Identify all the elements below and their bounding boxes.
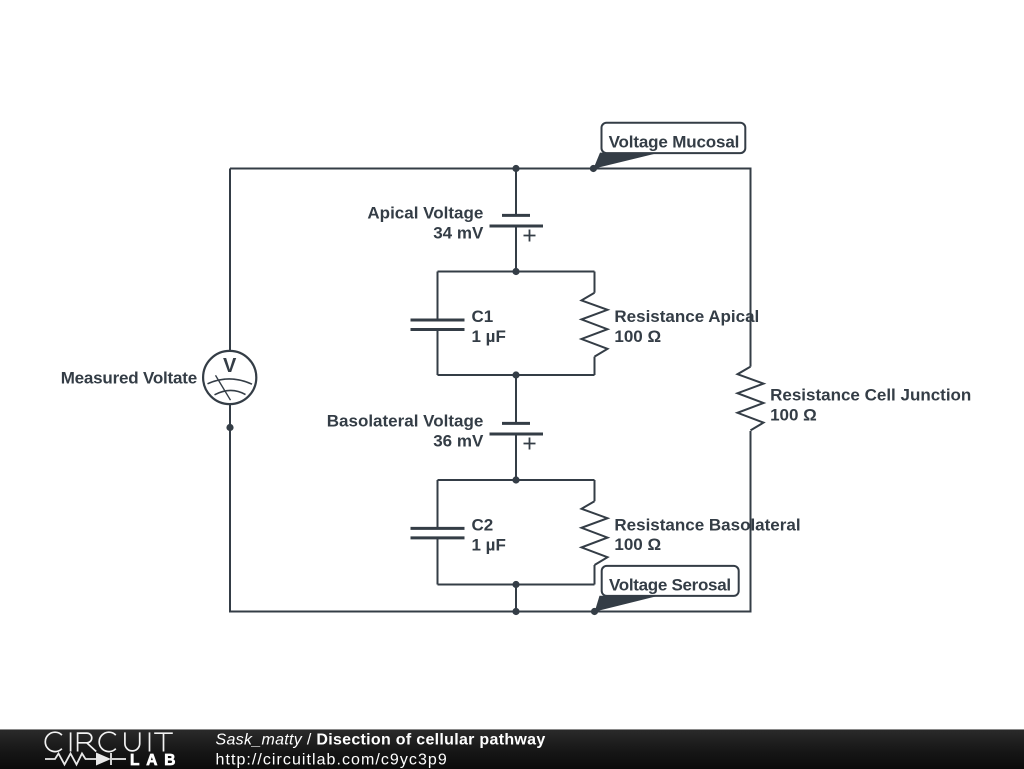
svg-text:Voltage Mucosal: Voltage Mucosal — [609, 132, 740, 151]
svg-text:34 mV: 34 mV — [433, 224, 484, 243]
svg-text:Voltage Serosal: Voltage Serosal — [609, 575, 731, 594]
svg-text:Apical Voltage: Apical Voltage — [367, 204, 483, 223]
svg-text:Sask_matty / Disection of cell: Sask_matty / Disection of cellular pathw… — [216, 732, 546, 749]
svg-text:C1: C1 — [472, 307, 494, 326]
svg-text:Basolateral Voltage: Basolateral Voltage — [327, 412, 484, 431]
svg-text:Resistance Apical: Resistance Apical — [614, 307, 759, 326]
svg-text:1 µF: 1 µF — [472, 535, 506, 554]
svg-text:C2: C2 — [472, 515, 494, 534]
svg-text:http://circuitlab.com/c9yc3p9: http://circuitlab.com/c9yc3p9 — [216, 751, 448, 768]
svg-text:36 mV: 36 mV — [433, 432, 484, 451]
svg-text:LAB: LAB — [130, 752, 182, 768]
svg-text:100 Ω: 100 Ω — [614, 535, 661, 554]
svg-text:100 Ω: 100 Ω — [614, 327, 661, 346]
svg-text:Measured Voltate: Measured Voltate — [61, 369, 197, 388]
svg-text:1 µF: 1 µF — [472, 327, 506, 346]
svg-text:V: V — [223, 355, 237, 377]
svg-text:100 Ω: 100 Ω — [770, 405, 817, 424]
svg-text:Resistance Basolateral: Resistance Basolateral — [614, 515, 800, 534]
svg-text:Resistance Cell Junction: Resistance Cell Junction — [770, 385, 971, 404]
